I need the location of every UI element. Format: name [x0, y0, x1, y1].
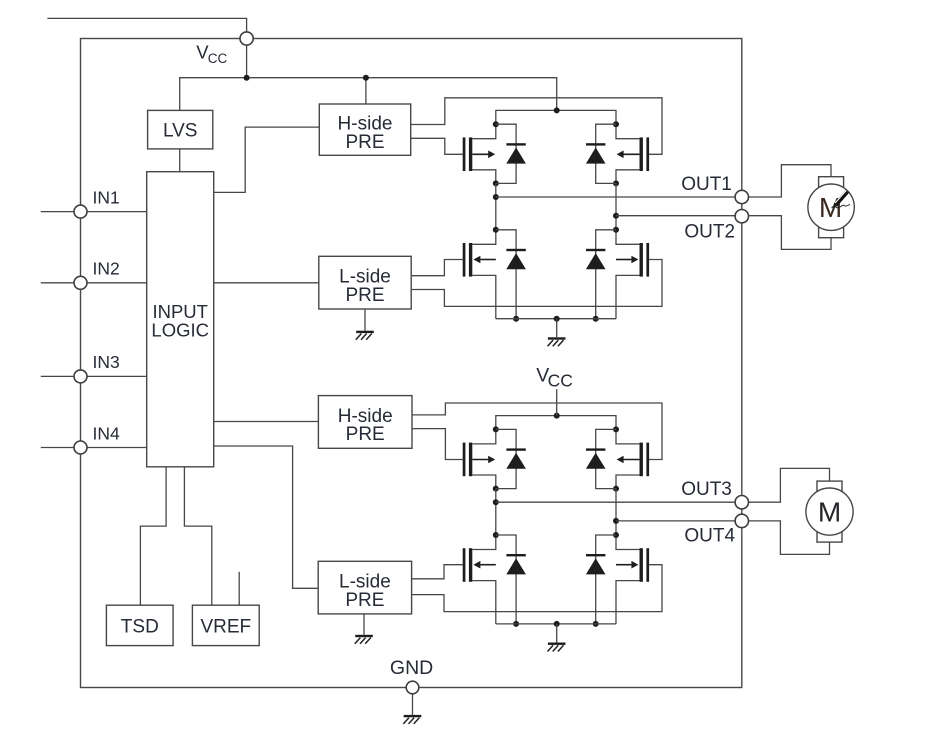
wire L-side PRE2 to Q7 gate — [412, 565, 463, 579]
transistor Q1 — [463, 121, 499, 186]
svg-text:PRE: PRE — [346, 424, 385, 445]
transistor Q4 — [613, 227, 649, 319]
svg-text:PRE: PRE — [345, 285, 384, 306]
wire OUT3 to motor M2 — [749, 468, 830, 502]
block L-side PRE (bridge 1) U4 — [319, 256, 411, 309]
block LVS U2 — [148, 110, 213, 148]
diode D2 (body diode of Q2) — [586, 124, 616, 183]
wire H-side PRE1 to Q2 gate (return over bridge) — [411, 98, 662, 155]
wire IN1 to INPUT LOGIC — [87, 211, 147, 213]
wire OUT2 output line — [616, 215, 735, 217]
wire GND pin stem — [412, 694, 414, 715]
diode D6 (body diode of Q6) — [586, 429, 616, 488]
wire VCC rail (top) — [180, 78, 557, 111]
svg-text:LOGIC: LOGIC — [151, 319, 209, 340]
ground bridge 2 bridge ground — [548, 643, 566, 652]
wire right half-bridge column to OUT2 — [615, 183, 617, 229]
block VREF U6 — [192, 605, 259, 645]
wire OUT4 output line — [616, 520, 735, 522]
motor M2 — [806, 481, 853, 542]
diode D8 (body diode of Q8) — [586, 535, 616, 627]
wire VREF stub — [238, 572, 240, 605]
wire L-side PRE1 to Q3 gate — [411, 260, 463, 276]
svg-text:PRE: PRE — [345, 590, 384, 611]
wire left half-bridge column to OUT1 — [495, 183, 497, 229]
terminal OUT1 pin — [735, 190, 748, 203]
wire VCC pin stem — [246, 45, 248, 78]
diode D5 (body diode of Q5) — [496, 429, 526, 488]
wire ground stem (bridge 2) — [556, 624, 558, 643]
terminal OUT3 pin — [735, 496, 748, 509]
block TSD U5 — [106, 605, 173, 645]
transistor Q3 — [463, 227, 499, 319]
diode D3 (body diode of Q3) — [496, 230, 526, 322]
wire H-side PRE1 VCC stem — [365, 78, 367, 104]
block L-side PRE (bridge 2) U8 — [318, 561, 411, 614]
wire L-side PRE2 ground stem — [363, 614, 365, 635]
transistor Q2 — [613, 121, 649, 186]
terminal GND pin — [406, 681, 419, 694]
ground bridge 1 bridge ground — [548, 337, 566, 346]
wire OUT2 to motor M1 — [749, 216, 832, 250]
diode D7 (body diode of Q7) — [496, 535, 526, 627]
wire IN2 external stub — [41, 282, 74, 284]
ground GND pin — [403, 715, 421, 724]
svg-text:VREF: VREF — [200, 616, 251, 637]
wire INPUT LOGIC to H-side PRE1 — [214, 127, 320, 192]
junction VCC pin / rail — [244, 75, 250, 81]
svg-text:CC: CC — [208, 51, 228, 66]
block INPUT LOGIC U1 — [147, 172, 214, 467]
wire OUT3 output line — [496, 501, 735, 503]
junction H-side PRE1 / rail — [363, 75, 369, 81]
wire INPUT LOGIC to TSD — [140, 467, 166, 605]
wire H-side PRE2 to Q6 gate (return over bridge) — [412, 403, 662, 460]
wire INPUT LOGIC to L-side PRE2 — [214, 446, 319, 588]
wire IN1 external stub — [41, 211, 74, 213]
wire source ground rail (bridge 1) — [496, 318, 616, 320]
terminal VCC pin — [240, 32, 253, 45]
block H-side PRE (bridge 1) U3 — [319, 104, 410, 155]
wire L-side PRE1 to Q4 gate (routed under bridge) — [411, 260, 662, 307]
ground L-side PRE1 — [356, 331, 374, 340]
transistor Q6 — [613, 426, 649, 491]
svg-text:LVS: LVS — [163, 121, 198, 142]
wire IN2 to INPUT LOGIC — [87, 282, 147, 284]
transistor Q5 — [463, 426, 499, 491]
wire left half-bridge column to OUT3 — [495, 489, 497, 535]
wire OUT1 output line — [496, 196, 735, 198]
terminal IN2 pin — [74, 276, 87, 289]
wire external VCC feed — [47, 18, 246, 32]
wire L-side PRE2 to Q8 gate (routed under bridge) — [412, 565, 662, 612]
motor M1 — [808, 177, 854, 238]
wire source ground rail (bridge 2) — [496, 623, 616, 625]
svg-text:OUT1: OUT1 — [681, 174, 732, 195]
junction rail center tap (bridge 1) — [554, 107, 560, 113]
wire VCC drain rail (bridge 2) — [496, 416, 616, 430]
wire H-side PRE2 to Q5 gate — [412, 429, 463, 460]
wire VCC drain rail (bridge 1) — [496, 110, 616, 124]
wire ground stem (bridge 1) — [556, 319, 558, 338]
junction node OUT2 — [613, 213, 619, 219]
svg-text:IN3: IN3 — [93, 352, 120, 372]
wire IN4 to INPUT LOGIC — [87, 447, 147, 449]
transistor Q7 — [463, 532, 499, 624]
junction ground tap (bridge 1) — [554, 316, 560, 322]
wire INPUT LOGIC to H-side PRE2 — [214, 421, 319, 423]
wire IN4 external stub — [41, 447, 74, 449]
terminal IN1 pin — [74, 205, 87, 218]
ground L-side PRE2 — [355, 635, 373, 644]
wire LVS to INPUT LOGIC — [179, 149, 181, 172]
svg-text:OUT4: OUT4 — [684, 526, 735, 547]
svg-text:OUT2: OUT2 — [684, 222, 735, 243]
terminal OUT4 pin — [735, 514, 748, 527]
svg-text:CC: CC — [548, 370, 573, 390]
junction node OUT3 — [493, 499, 499, 505]
svg-text:GND: GND — [390, 657, 433, 679]
wire INPUT LOGIC to L-side PRE1 — [214, 282, 319, 284]
svg-text:IN1: IN1 — [93, 187, 120, 207]
svg-text:IN2: IN2 — [93, 259, 120, 279]
block H-side PRE (bridge 2) U7 — [318, 396, 412, 449]
svg-text:IN4: IN4 — [93, 423, 121, 443]
wire INPUT LOGIC to VREF — [184, 467, 211, 605]
svg-text:M: M — [818, 497, 841, 528]
wire VCC mid stem — [556, 389, 558, 415]
wire OUT4 to motor M2 — [749, 521, 830, 555]
svg-text:OUT3: OUT3 — [681, 479, 732, 500]
svg-text:TSD: TSD — [121, 616, 159, 637]
IC boundary frame — [81, 39, 742, 688]
terminal OUT2 pin — [735, 210, 748, 223]
wire L-side PRE1 ground stem — [364, 309, 366, 331]
junction node OUT1 — [493, 194, 499, 200]
wire IN3 external stub — [41, 375, 74, 377]
terminal IN3 pin — [74, 370, 87, 383]
svg-text:PRE: PRE — [345, 132, 384, 153]
junction rail center tap (bridge 2) — [554, 413, 560, 419]
terminal IN4 pin — [74, 441, 87, 454]
diode D4 (body diode of Q4) — [586, 230, 616, 322]
wire right half-bridge column to OUT4 — [615, 489, 617, 535]
transistor Q8 — [613, 532, 649, 624]
junction ground tap (bridge 2) — [554, 621, 560, 627]
junction node OUT4 — [613, 518, 619, 524]
wire H-side PRE1 to Q1 gate — [411, 138, 463, 154]
pencil artifact over M1 — [832, 191, 851, 209]
wire OUT1 to motor M1 — [749, 165, 832, 197]
wire IN3 to INPUT LOGIC — [87, 375, 147, 377]
diode D1 (body diode of Q1) — [496, 124, 526, 183]
